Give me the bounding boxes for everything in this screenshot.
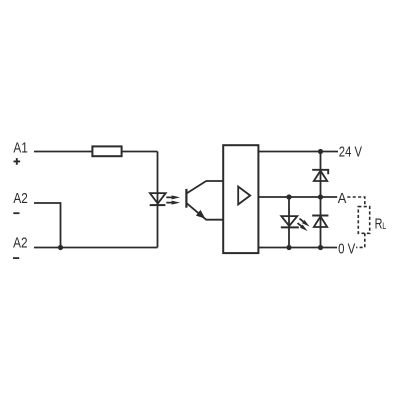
amplifier triangle symbol bbox=[238, 187, 250, 205]
terminal label A2 (lower) bbox=[13, 235, 27, 251]
svg-text:A2: A2 bbox=[13, 191, 27, 207]
plus sign for A1 bbox=[14, 158, 21, 165]
terminal label A1 bbox=[13, 140, 27, 156]
load resistor RL dashed box bbox=[358, 207, 369, 234]
terminal label A2 (upper) bbox=[13, 191, 27, 207]
status LED D3 cathode bar bbox=[281, 226, 299, 228]
wire 24V output bbox=[258, 151, 338, 153]
wire upper A2 with corner down bbox=[34, 203, 61, 248]
status LED light arrows bbox=[296, 217, 311, 233]
optocoupler input LED D1 bbox=[150, 193, 166, 205]
svg-text:A2: A2 bbox=[13, 235, 27, 251]
zener diode D2 triangle bbox=[314, 171, 327, 181]
dashed wire from A to load bbox=[347, 197, 365, 207]
wire resistor to LED branch corner bbox=[122, 151, 158, 153]
minus sign for upper A2 bbox=[13, 212, 19, 214]
resistor R1 (input series resistor) bbox=[92, 146, 121, 156]
junction dot A2 bbox=[58, 245, 63, 250]
phototransistor emitter wire bbox=[187, 203, 223, 219]
label A bbox=[338, 191, 347, 207]
light arrows from LED to phototransistor bbox=[166, 195, 180, 204]
svg-text:A1: A1 bbox=[13, 140, 27, 156]
svg-text:L: L bbox=[382, 220, 386, 231]
wire vertical through status LED bbox=[288, 197, 290, 248]
zener diode D2 cathode bar with hook bbox=[312, 170, 328, 174]
svg-text:24 V: 24 V bbox=[339, 144, 362, 160]
wire A1 to resistor bbox=[34, 151, 92, 153]
phototransistor Q1 base bar bbox=[185, 189, 187, 208]
amplifier block U1 bbox=[223, 145, 258, 253]
junction dot 0V right bbox=[318, 245, 323, 250]
label 0 V bbox=[338, 241, 355, 257]
junction dot 24V bbox=[318, 149, 323, 154]
svg-text:A: A bbox=[338, 191, 347, 207]
junction dot 0V left bbox=[286, 245, 291, 250]
minus sign for lower A2 bbox=[13, 257, 19, 259]
phototransistor collector wire bbox=[187, 181, 223, 193]
junction dot A right bbox=[318, 194, 323, 199]
phototransistor emitter arrowhead bbox=[197, 211, 204, 218]
dashed wire from load to 0V bbox=[356, 233, 365, 247]
wire vertical through optocoupler LED bbox=[157, 152, 159, 248]
wire lower A2 horizontal bbox=[34, 247, 158, 249]
wire 0V output bbox=[258, 247, 337, 249]
freewheeling diode D4 triangle bbox=[314, 216, 327, 227]
label RL bbox=[375, 215, 387, 232]
junction dot A left bbox=[286, 194, 291, 199]
wire vertical right diode chain bbox=[320, 152, 322, 248]
status LED D3 triangle bbox=[281, 216, 297, 226]
svg-text:0 V: 0 V bbox=[338, 241, 355, 257]
freewheeling diode D4 cathode bar bbox=[312, 215, 328, 217]
wire output A bbox=[258, 196, 337, 198]
label 24 V bbox=[339, 144, 362, 160]
